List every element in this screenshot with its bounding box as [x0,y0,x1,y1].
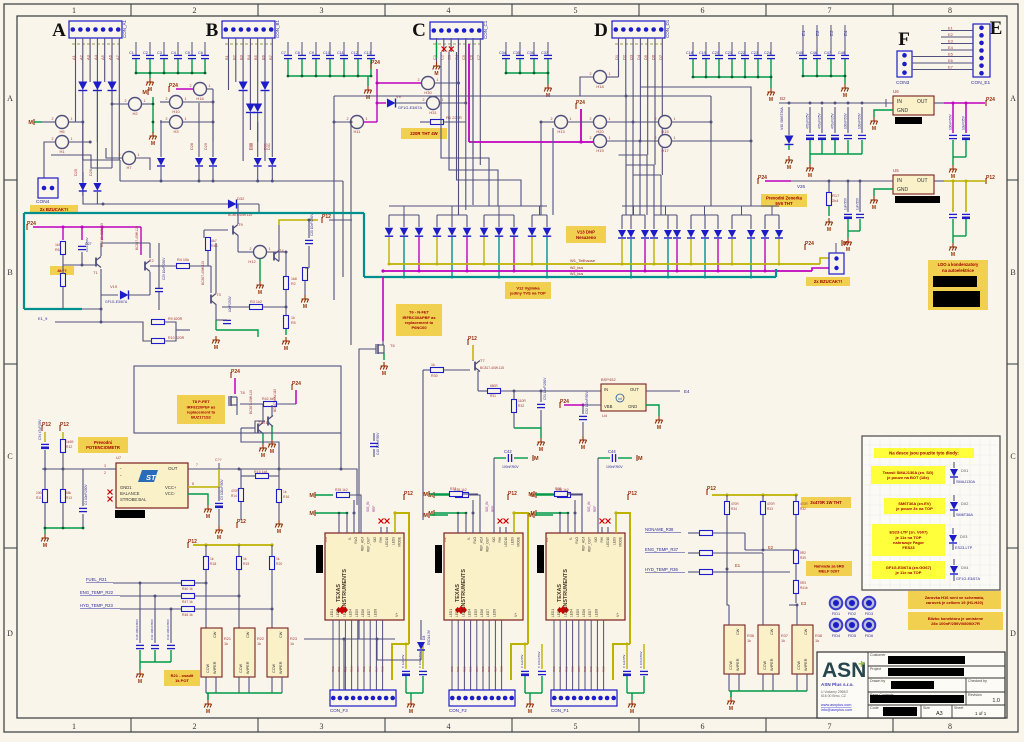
ground caps C38-C39 [136,670,143,678]
green pin1 of CON_C1 [436,42,438,58]
diode V1 [78,82,87,91]
svg-text:LED5: LED5 [576,609,580,617]
svg-text:R31: R31 [558,666,562,672]
capacitor C31 electrolytic [818,135,826,138]
black bar drawn by [891,681,934,689]
svg-text:D: D [7,629,13,638]
svg-text:T2: T2 [149,258,154,263]
ground R16 [275,520,282,528]
potentiometer R37 [758,625,779,674]
capacitor C46 [813,55,821,58]
no-connect X [442,47,447,52]
wire below TVS V36 [690,239,692,264]
wire stub2 [472,500,474,513]
svg-text:LED3: LED3 [461,609,465,617]
wire to C39 [170,609,172,643]
svg-text:M: M [638,456,643,462]
wire below R32 [795,515,797,553]
resistor R43 [700,551,713,556]
ground pots right [727,697,734,705]
svg-text:1k: 1k [243,557,247,561]
svg-text:C4: C4 [171,51,176,55]
title block dividers [868,652,1005,718]
svg-text:DX4: DX4 [961,566,968,570]
svg-text:R5: R5 [291,321,296,325]
note LDO a kondenzatory [928,260,988,310]
svg-text:H11: H11 [353,129,361,134]
svg-text:je pouze na BOT (18x): je pouze na BOT (18x) [886,475,929,480]
svg-text:V+: V+ [514,613,518,618]
svg-text:1k: 1k [283,490,287,494]
svg-text:C 1uF/35V: C 1uF/35V [622,654,626,668]
svg-text:LED2: LED2 [455,609,459,617]
wire above TVS V28 [513,215,515,227]
lamp H10 [170,96,183,109]
wire to D8 [420,620,422,640]
fiducial FID1 [830,597,843,610]
wire pin3 chip3 [574,513,576,533]
green bus of bank B (C7-C13) [288,59,371,86]
no-connect X [600,519,605,524]
svg-text:WIPER: WIPER [213,661,217,674]
note Zarovka H16 [908,591,1001,609]
lamp H31 [427,97,440,110]
dashed strip under connector D [615,43,662,45]
zener D27 [157,158,165,166]
green T3 emitter [215,320,217,330]
svg-text:C1: C1 [129,51,134,55]
capacitor C23 [754,55,762,58]
wire U7 OUT long [188,468,341,470]
svg-text:R41b: R41b [800,586,808,590]
svg-text:2x BZUCAK?!: 2x BZUCAK?! [40,207,69,212]
svg-text:ASN Plus s.r.o.: ASN Plus s.r.o. [821,682,854,687]
note Prevodni POTENCIOMETR [78,437,128,453]
pin net labels under connector D [614,54,663,60]
wire lower horizontal bus y181 [120,180,343,182]
svg-text:M: M [843,93,847,99]
svg-text:2: 2 [52,137,54,141]
resistor R1 [431,120,444,125]
wire pin3 chip2 [472,513,474,533]
resistor R9 [152,320,165,325]
fiducial FID3 [863,597,876,610]
outline wire big loop around T8 [134,366,341,433]
wire above D29 [212,103,214,157]
wire down to R11 [44,469,46,490]
wire R20 to pot [271,570,273,628]
connector CON_F3 [330,690,396,706]
svg-text:W3_bus: W3_bus [570,272,583,276]
transistor T11 [268,416,273,427]
svg-text:2: 2 [166,117,168,121]
wire DX4 bottom [953,575,955,581]
svg-text:H13: H13 [557,129,565,134]
wire T9 to H12 [238,251,254,253]
svg-text:C38 100nF/50V: C38 100nF/50V [135,619,139,640]
capacitor C5b [215,503,223,506]
svg-text:R16: R16 [368,666,372,672]
svg-text:D: D [594,20,608,41]
green bus of bank C (C34-C37) [506,59,548,84]
svg-text:8: 8 [192,482,194,486]
svg-text:C42: C42 [504,449,512,454]
wire x344 to CON_F3 [343,639,345,690]
svg-text:470uF/35V: 470uF/35V [818,113,822,129]
wire to VBB pin [583,404,601,406]
svg-text:E1_9: E1_9 [38,316,48,321]
wire into CON4 [43,156,45,178]
svg-text:M: M [787,165,791,171]
wire R8 down [304,281,306,295]
wire T8 to R42 [240,403,264,405]
svg-text:FID6: FID6 [865,634,873,638]
svg-text:W2_bus: W2_bus [570,266,583,270]
wire row1 to pin chip1 [350,495,362,533]
green GND wire of U5 [874,189,893,196]
ground R8 [301,295,308,303]
svg-text:M: M [808,173,812,179]
svg-text:C37: C37 [541,51,548,55]
transistor T10 [258,423,263,434]
svg-text:VCC+: VCC+ [165,485,177,490]
wire V19 to T2 [129,294,151,296]
wire T3 collector up [215,243,217,293]
capacitor C51a [402,671,410,674]
svg-text:SIG: SIG [492,536,496,542]
red X cap at OUT [218,463,220,475]
capacitor C48 [841,55,849,58]
no-connect X [504,519,509,524]
svg-text:R33: R33 [767,507,773,511]
wire right into chip area [341,469,357,505]
magenta to T8 [234,378,236,394]
wire H16 right [207,88,214,90]
magenta vertical from CON_C1 [468,44,470,142]
wire to H3 [160,121,170,123]
svg-text:CW: CW [246,631,250,638]
wire row2 pin chip1 [338,513,340,533]
svg-text:H20: H20 [596,129,604,134]
green row1 chip3 [536,494,554,496]
svg-text:V13 DNP: V13 DNP [577,229,595,234]
wire horizontal y639 [304,638,395,640]
svg-text:R32: R32 [518,404,524,408]
svg-text:R23: R23 [290,637,297,641]
TVS diode V26 [480,228,488,236]
svg-text:Customer: Customer [870,653,886,657]
magenta into CON3 pin2 [812,268,829,271]
svg-text:R30: R30 [431,374,438,378]
svg-text:C 1uF/35V: C 1uF/35V [401,654,405,668]
no-connect X [449,47,454,52]
svg-text:P12: P12 [42,422,51,428]
svg-text:7: 7 [828,6,832,15]
svg-text:M: M [151,141,155,147]
ground U5 [870,196,877,204]
svg-text:5R3: 5R3 [800,581,806,585]
capacitor C61 [949,214,957,217]
wire T9 emitter [237,235,239,252]
note Prevodni Zenerka [761,194,807,207]
svg-text:C19: C19 [699,51,706,55]
IC U4 BSP452 body [601,384,646,411]
svg-text:470uF/35V: 470uF/35V [806,113,810,129]
wire H31 right [440,102,466,104]
TVS diode V21 [400,228,408,236]
yellow to cap b chip3 [643,644,645,669]
wire T4 up [278,225,280,261]
svg-text:RHI: RHI [379,537,383,543]
svg-text:C18: C18 [686,51,693,55]
svg-text:W1_Tellhause: W1_Tellhause [570,258,596,263]
capacitor C9 [312,55,320,58]
svg-text:C39 100nF/50V: C39 100nF/50V [166,619,170,640]
svg-text:1k: 1k [224,642,228,646]
TVS diode V310 [747,230,755,238]
net labels above bank C45-C48 [801,25,848,42]
wire D stair 1 [625,96,627,215]
olive VCC+ wire [188,469,219,487]
svg-text:1k: 1k [291,316,295,320]
pin labels top of U3 [348,536,402,551]
svg-text:2: 2 [347,117,349,121]
svg-text:LED6: LED6 [480,609,484,617]
magenta into V9 [377,102,386,104]
svg-text:R3 1k2: R3 1k2 [250,300,262,304]
wire R11 down [44,503,46,528]
svg-text:LED6: LED6 [582,609,586,617]
svg-text:C29 10nF/250V: C29 10nF/250V [162,257,166,280]
svg-text:100nF/50V: 100nF/50V [606,465,623,469]
yellow to cap a chip1 [405,644,407,669]
svg-text:CON_F1: CON_F1 [551,708,569,713]
wire below R33b [762,515,764,550]
svg-text:1: 1 [185,97,187,101]
wire below V2 [96,91,98,175]
svg-text:M: M [206,514,210,520]
no-connect X [606,519,611,524]
capacitor C62a [538,671,546,674]
svg-text:REF_ADJ: REF_ADJ [581,537,585,552]
svg-text:7: 7 [196,463,198,467]
svg-text:H1: H1 [59,149,65,154]
svg-text:P24: P24 [986,97,995,103]
note V12 Vyjimka [505,282,551,299]
ground T7 bus [537,438,544,446]
wire bundle from CON_D1 [619,38,663,175]
capacitor C4b [79,508,87,511]
cap and M above CON3 [835,243,837,253]
wire B2 to U6 IN [779,102,893,104]
svg-text:LED8: LED8 [492,609,496,617]
svg-text:C??: C?? [215,458,221,462]
wire DX4 top [953,559,955,565]
note 2x BZUCAK right [806,277,850,286]
ground T10 [259,444,266,452]
wire T9 base [204,229,228,231]
wire A col to D26 [96,175,98,182]
svg-text:3x470R 1W THT: 3x470R 1W THT [810,500,842,505]
no-connect X [108,490,113,495]
svg-text:2: 2 [190,84,192,88]
svg-text:M: M [309,511,314,517]
svg-text:R27: R27 [493,666,497,672]
wire R1 right [444,121,466,123]
wire above TVS V38 [717,215,719,229]
svg-text:inf: inf [618,397,622,401]
fiducial FID6 [863,619,876,632]
svg-text:1: 1 [185,117,187,121]
svg-text:3: 3 [320,722,324,731]
long vertical x423 [422,370,424,520]
svg-text:P12: P12 [322,214,331,220]
svg-text:E7: E7 [948,65,954,70]
svg-text:C7: C7 [281,51,286,55]
svg-text:C8: C8 [295,51,300,55]
svg-text:1: 1 [609,136,611,140]
svg-text:R13: R13 [66,496,72,500]
ground C52 [579,436,586,444]
zener D26 [93,183,101,191]
black redaction bar 1 in LDO note [933,276,977,287]
IC U2 LED driver [444,533,523,620]
yellow cap link chip1 [392,644,409,680]
ground caps chip2 [526,700,533,708]
svg-text:LED5: LED5 [474,609,478,617]
wire cluster to x351 [329,219,352,221]
diode V3 [108,82,117,91]
potentiometer R21 [201,628,222,677]
wire R46 to node [195,608,273,610]
wire to R32 [513,391,515,399]
wire below D29 [212,167,214,181]
yellow cap link chip3 [613,644,630,680]
svg-text:10uF/35V: 10uF/35V [962,115,966,130]
resistor R42 [264,402,277,407]
svg-text:A: A [1010,94,1016,103]
svg-text:R33: R33 [571,666,575,672]
svg-text:R4 10k: R4 10k [177,258,189,262]
pot pin down a [271,677,273,693]
svg-text:C51 10nF/250V: C51 10nF/250V [543,377,547,400]
wire R47 to node [195,595,240,597]
black bar project [888,668,964,676]
ground caps chip1 [407,700,414,708]
capacitor C53a [623,671,631,674]
wires CON_E1 to left [912,31,973,70]
TVS diode V311 [761,230,769,238]
wire DX3 bottom [952,544,954,550]
svg-text:CCW: CCW [763,661,767,670]
wire R38 right [568,493,584,495]
svg-text:Size: Size [923,706,930,710]
svg-text:R15 1k8: R15 1k8 [254,470,267,474]
capacitor C40 [370,443,378,446]
svg-text:1k: 1k [257,642,261,646]
resistor R31 [488,389,501,394]
wire above TVS V25 [466,215,468,227]
capacitor C2 [146,55,154,58]
svg-text:LED9: LED9 [510,537,514,545]
resistor R40 [182,581,195,586]
svg-text:E: E [990,18,1003,39]
svg-text:6: 6 [701,722,705,731]
wire R14 down [240,502,242,520]
wire below C29 [158,292,160,310]
svg-text:M: M [217,535,221,541]
svg-text:P12: P12 [468,336,477,342]
lamp H13 [555,116,568,129]
capacitor C51 [858,135,866,138]
resistor R35-1 [337,493,350,498]
wire R9R10 to C29 [176,329,190,331]
green bus U6 out caps [953,140,966,165]
resistor R19 [237,557,242,570]
olive to T7 [472,345,474,360]
svg-text:MODE: MODE [619,537,623,547]
capacitor C22 [741,55,749,58]
wire below TVS V21 [403,237,405,277]
wire below C20 [308,246,310,268]
no-connect X [108,497,113,502]
green bus of bank A (C1-C6) [136,59,205,78]
capacitor C7 [284,55,292,58]
svg-text:C52 100nF/50V: C52 100nF/50V [585,391,589,414]
wire above TVS V30 [621,215,623,229]
pin net labels under connector A [71,54,120,60]
green right of C42 [514,457,528,459]
svg-text:M: M [872,205,876,211]
svg-text:P12: P12 [628,491,637,497]
junction A6 wire [111,103,114,106]
svg-text:2: 2 [418,78,420,82]
green T10 emitter [262,433,264,444]
zener D25 [79,183,87,191]
wire above TVS V37 [704,215,706,229]
wire R9 R10 right join [165,322,177,341]
svg-text:CON_C1: CON_C1 [483,20,488,39]
fiducial FID4 [830,619,843,632]
svg-text:M: M [951,252,955,258]
wire T3 to R3 [222,306,250,308]
wire to R32 [795,495,797,502]
svg-text:T8: T8 [240,390,245,395]
potentiometer R38 [792,625,813,674]
pin labels bottom of U2 [449,609,518,617]
wire R12 down [62,453,64,469]
wire above D30 [257,122,259,157]
wire to V19 [101,294,118,296]
resistor R14 [239,489,244,502]
svg-text:R38: R38 [602,666,606,672]
magenta down to V9 [376,83,378,103]
magenta wire P24 to H16 [176,88,194,90]
wire to C51a [540,391,542,402]
svg-text:BC807-40W.115: BC807-40W.115 [135,226,139,250]
svg-text:BC807-40W.115: BC807-40W.115 [249,390,253,414]
svg-text:M: M [309,493,314,499]
wire below D31 [271,167,273,181]
svg-text:CW: CW [279,631,283,638]
wire above D31 [271,122,273,157]
svg-text:680R: 680R [490,384,498,388]
wire DX1 top [953,462,955,468]
svg-text:1: 1 [674,117,676,121]
transistor T7 [475,361,480,372]
lamp H19 [594,135,607,148]
wire below TVS V27 [498,237,500,277]
